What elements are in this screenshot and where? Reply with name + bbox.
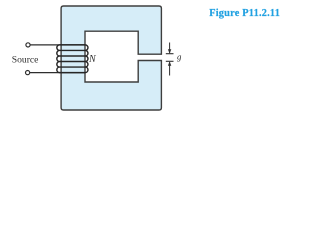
- dimension arrow (down arrow above gap): [169, 43, 171, 53]
- terminal (top source terminal): [26, 43, 30, 47]
- svg-text:g: g: [177, 51, 182, 61]
- terminal (bottom source terminal): [26, 71, 30, 75]
- wire (top lead from source to coil): [30, 44, 85, 46]
- core (magnetic core with window and air-gap slit): [61, 6, 161, 110]
- dimension arrow (up arrow below gap): [168, 61, 171, 66]
- dimension tick (gap bottom): [166, 60, 174, 62]
- wire (bottom lead from source to coil): [30, 72, 85, 74]
- svg-text:Figure P11.2.11: Figure P11.2.11: [209, 8, 280, 19]
- svg-text:N: N: [88, 54, 97, 65]
- svg-text:Source: Source: [12, 54, 39, 65]
- dimension tick (gap top): [166, 53, 174, 55]
- coil N (winding on left limb): [57, 45, 88, 73]
